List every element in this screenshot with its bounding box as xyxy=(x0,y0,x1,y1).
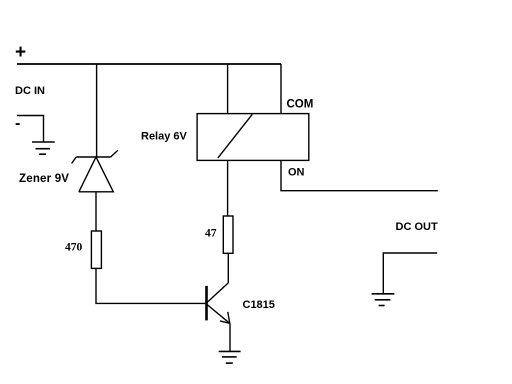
label C1815 xyxy=(243,299,275,311)
wire relay ON output xyxy=(281,160,438,190)
svg-text:470: 470 xyxy=(65,242,83,254)
wire zener drop from rail xyxy=(96,64,98,157)
svg-text:Relay 6V: Relay 6V xyxy=(141,131,188,143)
wire R1 to base xyxy=(96,268,206,303)
value label 47 xyxy=(205,228,217,240)
wire top positive rail xyxy=(17,63,281,65)
wire relay coil to R2 xyxy=(227,160,229,216)
svg-text:C1815: C1815 xyxy=(243,299,275,311)
node V- label xyxy=(15,115,20,132)
resistor R1 470 xyxy=(91,231,101,268)
node V+ label xyxy=(15,42,26,63)
svg-text:47: 47 xyxy=(205,228,217,240)
wire DC OUT return xyxy=(383,253,437,294)
value label 470 xyxy=(65,242,83,254)
wire relay coil from rail xyxy=(227,64,229,114)
wire collector to R2 xyxy=(227,253,229,283)
label Relay 6V xyxy=(141,131,188,143)
transistor Q1 C1815 xyxy=(207,283,230,323)
svg-text:Zener 9V: Zener 9V xyxy=(19,173,69,185)
label ON xyxy=(288,167,305,179)
label DC IN xyxy=(15,85,45,97)
label DC OUT xyxy=(396,221,438,233)
ground input xyxy=(32,142,55,154)
resistor R2 47 xyxy=(223,216,233,253)
wire negative input xyxy=(17,116,44,143)
svg-text:DC OUT: DC OUT xyxy=(396,221,438,233)
svg-text:COM: COM xyxy=(287,99,314,111)
label Zener 9V xyxy=(19,173,69,185)
svg-text:+: + xyxy=(15,42,26,63)
label COM xyxy=(287,99,314,111)
svg-text:-: - xyxy=(15,115,20,132)
zener diode Zener 9V xyxy=(72,150,118,192)
relay K1 Relay 6V xyxy=(197,114,309,161)
svg-text:ON: ON xyxy=(288,167,305,179)
wire emitter to ground xyxy=(229,323,231,351)
wire relay COM from rail xyxy=(280,64,282,114)
wire zener to R1 xyxy=(95,192,97,231)
ground output xyxy=(372,294,395,306)
svg-text:DC IN: DC IN xyxy=(15,85,45,97)
ground emitter xyxy=(219,351,241,363)
